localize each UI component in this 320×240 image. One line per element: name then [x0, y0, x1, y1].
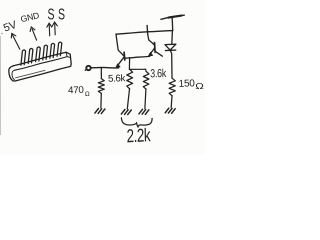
arrow: S to pin 5 — [47, 23, 52, 36]
ground (150Ω) — [165, 108, 175, 113]
transistor Q1 — [116, 34, 125, 68]
supply terminal T (V+) — [161, 15, 184, 30]
resistor 3.6k — [143, 71, 149, 108]
connector pin 4 — [43, 45, 48, 60]
resistor 470Ω — [98, 68, 104, 108]
label 2.2k (parallel value) — [126, 125, 151, 147]
arrow: S to pin 6 — [52, 22, 57, 35]
input terminal (signal) — [85, 66, 91, 71]
connector J1 body — [9, 52, 71, 81]
connector pin 3 — [36, 47, 41, 62]
wire: branch from 5.6k top to 3.6k top — [129, 69, 146, 71]
svg-text:3.6k: 3.6k — [150, 68, 167, 81]
connector pin 2 — [28, 48, 33, 63]
svg-text:2.2k: 2.2k — [126, 125, 151, 147]
svg-text:150: 150 — [179, 78, 196, 90]
diode D1 — [165, 31, 176, 79]
ground (3.6k) — [139, 109, 149, 114]
connector pin 1 — [21, 50, 26, 65]
svg-text:Ω: Ω — [195, 82, 204, 91]
resistor 150Ω — [169, 78, 175, 107]
brace: 5.6k parallel 3.6k — [121, 118, 152, 127]
svg-text:470: 470 — [68, 85, 85, 97]
connector pin 5 — [50, 43, 55, 58]
svg-text:S S: S S — [48, 5, 66, 23]
wire: input terminal to Q1 emitter node — [91, 66, 118, 69]
label S S — [48, 5, 66, 23]
svg-text:5.6k: 5.6k — [108, 73, 126, 85]
wire: top rail (V+) — [116, 31, 173, 35]
ground (5.6k) — [121, 110, 131, 115]
ground (470Ω) — [95, 109, 105, 114]
resistor 5.6k — [127, 69, 133, 109]
wire: node A drop to 5.6k top — [128, 58, 130, 70]
connector pin 6 — [57, 42, 62, 56]
transistor Q2 — [147, 25, 162, 56]
wire: Q1 base to Q2 emitter (node A) — [125, 56, 150, 58]
label 3.6k — [150, 68, 167, 81]
arrow: GND to pin 2 — [30, 27, 36, 40]
arrow: 5V to pin 1 — [11, 33, 19, 49]
svg-text:Ω: Ω — [85, 91, 90, 98]
